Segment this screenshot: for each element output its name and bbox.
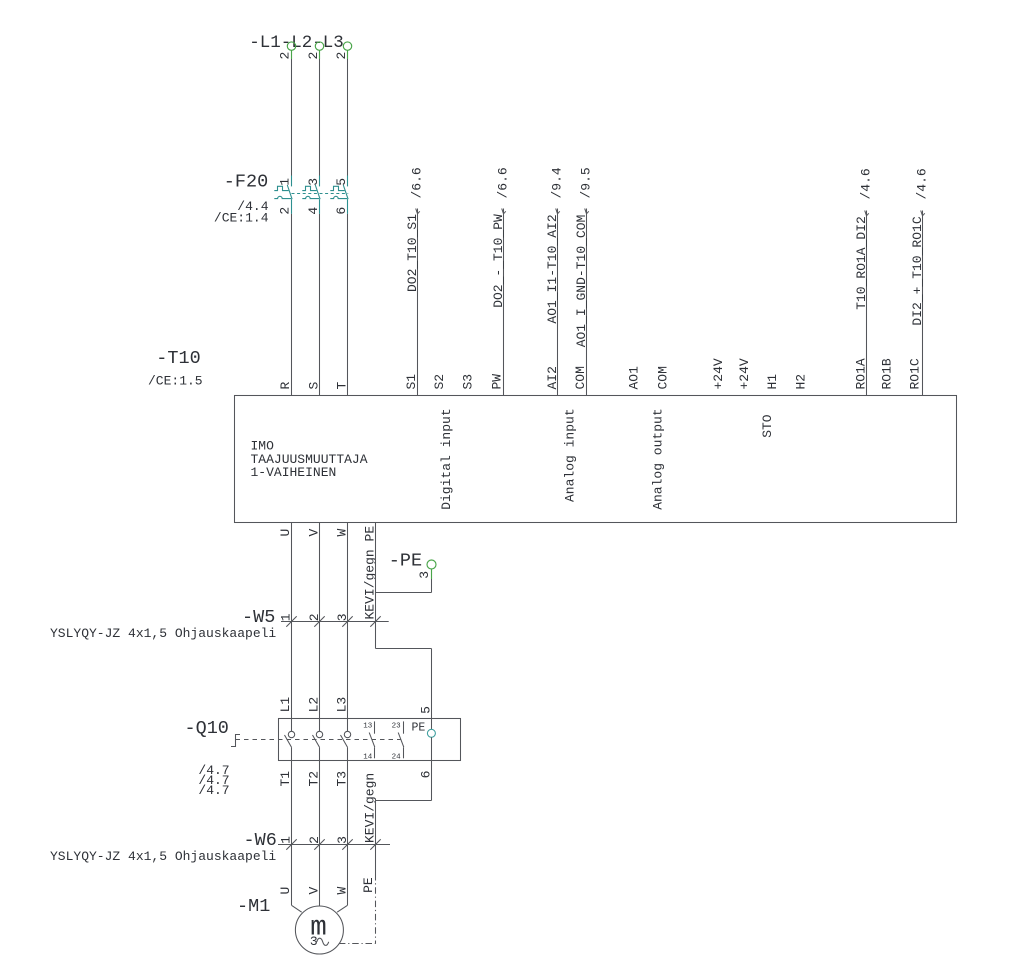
cable W5 slash conductor PE bbox=[370, 616, 380, 626]
svg-text:L2: L2 bbox=[307, 697, 322, 713]
svg-text:PE: PE bbox=[412, 722, 426, 735]
svg-text:5: 5 bbox=[419, 706, 434, 714]
svg-text:PE: PE bbox=[361, 877, 376, 893]
arrow PW wire top bbox=[502, 209, 506, 214]
wire PE jog to right column bbox=[376, 649, 432, 730]
wire L2 column from source to T10 S bbox=[319, 59, 321, 176]
svg-text:T10_RO1A_DI2: T10_RO1A_DI2 bbox=[854, 216, 869, 310]
svg-text:H2: H2 bbox=[793, 374, 808, 390]
wire RO1A net bbox=[866, 211, 868, 396]
contactor Q10 aux contact 23-24 bbox=[398, 721, 404, 758]
contactor Q10 aux contact 13-14 bbox=[369, 721, 375, 758]
svg-text:4: 4 bbox=[306, 207, 321, 215]
wire COM net bbox=[586, 209, 588, 396]
svg-text:DI2_+_T10_RO1C: DI2_+_T10_RO1C bbox=[910, 216, 925, 325]
svg-text:1: 1 bbox=[279, 836, 294, 844]
contactor Q10 body bbox=[279, 719, 461, 761]
svg-text:+24V: +24V bbox=[711, 358, 726, 389]
svg-text:2: 2 bbox=[306, 52, 321, 60]
contactor Q10 main contact 2 bbox=[313, 731, 323, 747]
svg-text:AO1_I_GND-T10_COM: AO1_I_GND-T10_COM bbox=[574, 215, 589, 348]
node L2 source terminal bbox=[315, 42, 323, 59]
svg-text:13: 13 bbox=[363, 723, 373, 731]
wire PE from T10 down bbox=[375, 523, 377, 649]
svg-text:PW: PW bbox=[489, 374, 504, 390]
svg-text:/4.6: /4.6 bbox=[915, 168, 930, 199]
svg-text:3: 3 bbox=[335, 836, 350, 844]
breaker F20 pole 2 bbox=[302, 176, 320, 214]
wire S1 net bbox=[417, 209, 419, 396]
svg-text:L1: L1 bbox=[278, 697, 293, 713]
node -PE terminal circle bbox=[427, 560, 436, 579]
svg-text:V: V bbox=[307, 887, 322, 895]
wire PE dash-dot to motor bbox=[339, 874, 376, 944]
svg-text:S3: S3 bbox=[460, 374, 475, 390]
breaker F20 pole 1 bbox=[274, 176, 292, 214]
svg-text:1: 1 bbox=[279, 613, 294, 621]
contactor Q10 main contact 3 bbox=[341, 731, 351, 747]
node L3 source terminal bbox=[343, 42, 351, 59]
svg-text:COM: COM bbox=[656, 366, 671, 389]
contactor Q10 PE terminal circle bbox=[427, 729, 435, 737]
svg-text:Analog input: Analog input bbox=[562, 408, 577, 502]
svg-text:-Q10: -Q10 bbox=[185, 718, 229, 739]
svg-text:3: 3 bbox=[417, 571, 432, 579]
svg-text:W: W bbox=[335, 887, 350, 895]
svg-text:5: 5 bbox=[334, 178, 349, 186]
arrow S1 wire top bbox=[416, 209, 420, 214]
svg-text:-T10: -T10 bbox=[156, 348, 200, 369]
wire U from Q10 to motor bbox=[291, 747, 293, 905]
svg-text:L3: L3 bbox=[335, 697, 350, 713]
cable W5 line bbox=[281, 621, 389, 623]
svg-text:AO1: AO1 bbox=[627, 366, 642, 390]
svg-text:U: U bbox=[278, 887, 293, 895]
arrow RO1C wire top bbox=[921, 211, 925, 216]
wire AI2 net bbox=[557, 209, 559, 396]
svg-text:S1: S1 bbox=[404, 374, 419, 390]
svg-text:Analog output: Analog output bbox=[650, 408, 665, 509]
svg-text:U: U bbox=[278, 529, 293, 537]
svg-text:YSLYQY-JZ 4x1,5 Ohjauskaapeli: YSLYQY-JZ 4x1,5 Ohjauskaapeli bbox=[50, 626, 276, 641]
svg-text:2: 2 bbox=[278, 207, 293, 215]
converter T10 name text bbox=[251, 439, 368, 480]
cable W5 slash conductor 3 bbox=[342, 616, 352, 626]
cable W6 slash conductor 3 bbox=[342, 839, 352, 849]
contactor Q10 linkage dashed bbox=[236, 739, 402, 741]
cable W6 slash conductor 1 bbox=[286, 839, 296, 849]
cable W5 slash conductor 1 bbox=[286, 616, 296, 626]
arrow RO1A wire top bbox=[865, 211, 869, 216]
svg-text:RO1B: RO1B bbox=[880, 358, 895, 389]
motor M1 body bbox=[295, 906, 343, 954]
svg-text:14: 14 bbox=[363, 753, 373, 761]
wire U diagonal into motor bbox=[292, 905, 302, 912]
svg-text:S: S bbox=[307, 382, 322, 390]
svg-text:3: 3 bbox=[306, 178, 321, 186]
svg-text:S2: S2 bbox=[432, 374, 447, 390]
wire PE branch to -PE node bbox=[376, 579, 432, 593]
svg-text:/CE:1.5: /CE:1.5 bbox=[148, 374, 203, 389]
converter T10 body bbox=[235, 396, 957, 523]
wire PE below Q10 bbox=[376, 737, 432, 874]
svg-text:3: 3 bbox=[335, 613, 350, 621]
svg-text:2: 2 bbox=[307, 613, 322, 621]
wire L1 column from source to T10 R bbox=[291, 59, 293, 176]
svg-text:/9.4: /9.4 bbox=[550, 167, 565, 198]
svg-text:2: 2 bbox=[278, 52, 293, 60]
wire V from Q10 to motor bbox=[319, 747, 321, 906]
svg-text:T: T bbox=[335, 382, 350, 390]
svg-text:2: 2 bbox=[334, 52, 349, 60]
svg-text:2: 2 bbox=[307, 836, 322, 844]
svg-text:RO1C: RO1C bbox=[908, 358, 923, 389]
breaker F20 mechanical linkage dashed bbox=[292, 193, 349, 195]
breaker F20 pole 3 bbox=[330, 176, 348, 214]
svg-text:-W5: -W5 bbox=[242, 607, 275, 628]
motor M1 label 3~ bbox=[310, 934, 329, 949]
cable W6 line bbox=[278, 844, 390, 846]
svg-text:YSLYQY-JZ 4x1,5 Ohjauskaapeli: YSLYQY-JZ 4x1,5 Ohjauskaapeli bbox=[50, 849, 276, 864]
contactor Q10 actuator bracket bbox=[231, 735, 240, 747]
svg-text:/CE:1.4: /CE:1.4 bbox=[214, 211, 269, 226]
svg-text:AO1_I1-T10_AI2: AO1_I1-T10_AI2 bbox=[545, 214, 560, 323]
cable W6 slash conductor 2 bbox=[314, 839, 324, 849]
svg-text:6: 6 bbox=[334, 207, 349, 215]
svg-text:+24V: +24V bbox=[737, 358, 752, 389]
svg-text:/6.6: /6.6 bbox=[410, 167, 425, 198]
svg-text:COM: COM bbox=[573, 366, 588, 389]
node L1 source terminal bbox=[287, 42, 295, 59]
svg-text:1-VAIHEINEN: 1-VAIHEINEN bbox=[251, 465, 337, 480]
svg-text:Digital input: Digital input bbox=[439, 408, 454, 509]
svg-text:-F20: -F20 bbox=[224, 172, 268, 193]
svg-text:T1: T1 bbox=[278, 771, 293, 787]
wire W from Q10 to motor bbox=[347, 747, 349, 905]
svg-text:/4.6: /4.6 bbox=[859, 168, 874, 199]
svg-text:DO2_-_T10_PW: DO2_-_T10_PW bbox=[491, 214, 506, 308]
svg-text:DO2_T10_S1: DO2_T10_S1 bbox=[405, 214, 420, 292]
svg-text:24: 24 bbox=[392, 753, 402, 761]
svg-text:-PE: -PE bbox=[389, 551, 422, 572]
wire PW net bbox=[503, 209, 505, 396]
svg-text:-M1: -M1 bbox=[237, 896, 270, 917]
svg-text:23: 23 bbox=[392, 723, 402, 731]
svg-text:STO: STO bbox=[760, 414, 775, 438]
arrow AI2 wire top bbox=[556, 209, 560, 214]
arrow COM wire top bbox=[585, 209, 589, 214]
wire L3 column from source to T10 T bbox=[347, 59, 349, 176]
wire W from T10 to Q10 bbox=[347, 523, 349, 732]
wire W diagonal into motor bbox=[337, 905, 347, 912]
svg-text:R: R bbox=[278, 382, 293, 390]
svg-text:H1: H1 bbox=[765, 374, 780, 390]
contactor Q10 main contact 1 bbox=[285, 731, 295, 747]
svg-text:-L1-L2-L3: -L1-L2-L3 bbox=[249, 33, 344, 53]
svg-text:/6.6: /6.6 bbox=[496, 167, 511, 198]
wire RO1C net bbox=[922, 211, 924, 396]
svg-text:1: 1 bbox=[278, 178, 293, 186]
svg-text:/9.5: /9.5 bbox=[579, 167, 594, 198]
wire U from T10 to Q10 bbox=[291, 523, 293, 732]
svg-text:/4.7: /4.7 bbox=[198, 783, 229, 798]
cable W5 slash conductor 2 bbox=[314, 616, 324, 626]
cable W6 slash conductor PE bbox=[370, 839, 380, 849]
wire V from T10 to Q10 bbox=[319, 523, 321, 732]
contactor Q10 crossrefs /4.7 bbox=[198, 763, 229, 798]
